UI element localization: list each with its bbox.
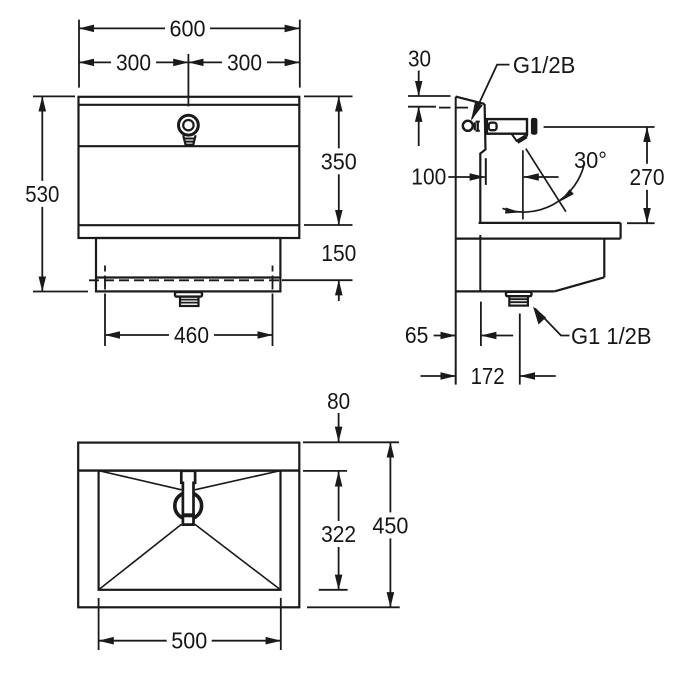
dim 500 right extension [280, 598, 282, 650]
svg-text:530: 530 [25, 181, 59, 207]
dim 530 text [19, 181, 65, 207]
faucet button [489, 123, 497, 131]
dim 65 left arrow [434, 335, 456, 337]
basin rect [99, 471, 281, 590]
dim 100 left arrow line [448, 176, 485, 178]
dim 322 bottom tick [319, 589, 348, 591]
svg-text:G1 1/2B: G1 1/2B [571, 323, 652, 349]
dim 322 text [316, 521, 362, 547]
svg-text:172: 172 [471, 363, 505, 389]
dim 600 line [79, 27, 300, 29]
dim 150 bottom tick [282, 279, 353, 281]
wall plate left edge + extension [455, 97, 457, 385]
30 deg arc [503, 164, 585, 212]
dim 530 bottom tick [33, 291, 88, 293]
back edge line [78, 469, 299, 471]
tap hole base [183, 135, 195, 145]
wall plate top slant [456, 97, 485, 104]
drain chord bar [182, 513, 195, 517]
dim 65 right arrow [481, 335, 513, 337]
dim 460 right extension [272, 294, 274, 346]
label G1/2B leader [472, 65, 510, 119]
dim 350 top tick [304, 95, 353, 97]
svg-text:500: 500 [171, 628, 207, 654]
bowl fold line bottom-left [99, 524, 182, 590]
rim underside [456, 238, 621, 240]
spout outline [512, 134, 528, 142]
dim 300 left text [111, 51, 156, 73]
outer rect [78, 443, 299, 608]
dim 350 bottom tick [304, 224, 353, 226]
bowl fold line top-left [99, 471, 182, 490]
mounting hole right (dash-dot cross) [272, 266, 274, 295]
svg-text:322: 322 [321, 521, 356, 547]
faucet inlet fitting [474, 122, 476, 130]
drain outlet front: flange [175, 292, 202, 297]
svg-text:450: 450 [372, 512, 408, 538]
dim 30 lower arrow [418, 107, 420, 146]
drain center extension [519, 314, 521, 385]
drain outlet side: flange [506, 292, 531, 296]
dim 460 text [169, 324, 214, 346]
dim 270 line [646, 127, 648, 223]
bottom band line [79, 224, 300, 226]
faucet inlet circle [463, 121, 473, 131]
spout nozzle [517, 136, 526, 142]
svg-text:30: 30 [408, 46, 431, 72]
dim 300 right line [188, 61, 299, 63]
skirt [96, 238, 280, 291]
arc arrow right [560, 189, 574, 201]
svg-text:65: 65 [405, 322, 429, 348]
dim 270 top extension [544, 126, 655, 128]
dim 30 upper arrow [418, 71, 420, 97]
spout axis line [522, 150, 524, 219]
bowl fold line bottom-right [195, 524, 281, 590]
dim 600 text [165, 17, 210, 39]
rim right edge [619, 223, 621, 239]
faucet body [487, 119, 527, 134]
dim 450 line [389, 442, 391, 607]
dim 450 text [367, 512, 413, 538]
dim 80/450 top tick [303, 441, 399, 443]
dim 530 top tick [33, 95, 75, 97]
tap hole symbol: inner ring [183, 120, 193, 130]
dim 600 extension left [78, 20, 80, 88]
wall plate right edge [480, 104, 485, 223]
rim top [479, 222, 621, 224]
bowl slant bottom [554, 277, 604, 291]
mounting centerline (dash-dot) [89, 279, 279, 281]
svg-text:100: 100 [411, 164, 446, 190]
bowl right edge [603, 239, 605, 278]
basin front edge line [79, 145, 300, 147]
svg-text:150: 150 [321, 240, 356, 266]
dim 350 text [316, 148, 362, 174]
skirt hem line [96, 276, 280, 278]
dim 450 bottom tick [307, 606, 400, 608]
faucet end cap [531, 118, 538, 135]
dim 460 left extension [104, 294, 106, 346]
dim 500 text [167, 630, 212, 652]
label G1 1/2B leader [535, 309, 570, 336]
svg-text:30°: 30° [574, 147, 607, 173]
dim 322 line (with shared 80 arrow) [338, 471, 340, 589]
dim 350 line [338, 96, 340, 225]
dim 80/322 middle tick [303, 470, 347, 472]
dim 172 left arrow [421, 375, 456, 377]
dim 300 left line [79, 61, 188, 63]
svg-text:80: 80 [327, 388, 350, 414]
dash-dot mounting line [439, 107, 451, 109]
30 deg slant line [526, 149, 566, 212]
dim 270 text [624, 164, 670, 190]
dim 150 lower arrow [338, 280, 340, 301]
dim 500 left extension [98, 598, 100, 650]
dim 80 upper arrow [338, 413, 340, 442]
drain outlet side: body [509, 296, 528, 305]
center extension line [187, 54, 189, 106]
drain outlet front: body [180, 297, 199, 306]
svg-text:460: 460 [174, 322, 209, 348]
bowl bottom [456, 290, 555, 292]
dim 30 top tick [408, 95, 451, 97]
dim 500 line [99, 640, 281, 642]
rim line [79, 104, 300, 106]
sink body outline [79, 97, 300, 238]
bowl back edge + extension [479, 235, 481, 291]
arc arrow left [505, 208, 520, 214]
svg-text:350: 350 [321, 148, 357, 174]
svg-text:270: 270 [630, 164, 665, 190]
dim 600 extension right [299, 20, 301, 88]
drain tube [181, 471, 195, 525]
bowl fold line top-right [195, 471, 281, 490]
drain circle [175, 492, 202, 519]
dim 30 bottom tick [408, 106, 436, 108]
tap hole symbol: outer ring [179, 115, 199, 135]
svg-text:300: 300 [227, 49, 262, 75]
mounting hole left (dash-dot cross) [104, 266, 106, 295]
dim 172 right arrow [520, 375, 556, 377]
dim 530 line [41, 96, 43, 291]
reference line 100 [485, 158, 487, 185]
svg-text:300: 300 [116, 49, 151, 75]
svg-text:G1/2B: G1/2B [513, 52, 576, 78]
dim 460 line [105, 334, 273, 336]
dim 270 bottom tick [627, 222, 655, 224]
svg-text:600: 600 [170, 15, 206, 41]
dim 300 right text [222, 51, 267, 73]
dim 100 right arrow line [524, 176, 559, 178]
